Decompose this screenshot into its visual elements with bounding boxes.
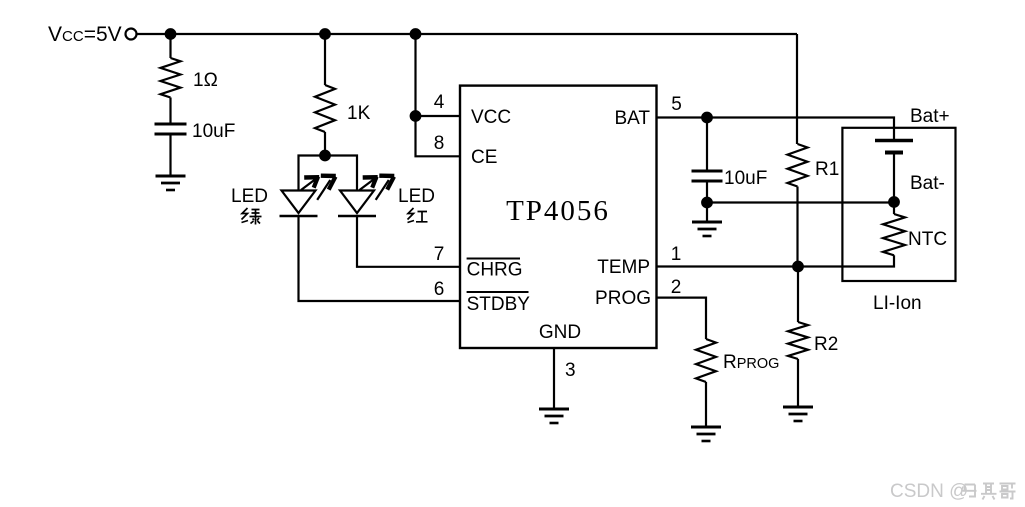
node: junction VCC / 1K (320, 29, 330, 39)
VCC input terminal (126, 29, 137, 40)
wire: 10uF to ground (169, 134, 171, 176)
svg-text:10uF: 10uF (724, 168, 767, 189)
LED red symbol (340, 191, 374, 214)
svg-text:BAT: BAT (614, 108, 650, 129)
wire: R2 to ground (797, 359, 799, 407)
svg-text:1K: 1K (347, 103, 371, 124)
capacitor 10uF input (155, 123, 187, 126)
svg-text:VCC: VCC (471, 107, 511, 128)
wire: green LED cathode to STDBY pin 6 (299, 216, 460, 301)
wire: VCC top rail (137, 33, 797, 35)
wire: cap to ground node (706, 181, 708, 222)
resistor 1K (315, 85, 335, 132)
svg-text:GND: GND (539, 322, 581, 343)
svg-text:Bat-: Bat- (910, 173, 945, 194)
svg-text:CHRG: CHRG (467, 260, 523, 281)
wire: rail to 1ohm (169, 34, 171, 58)
label green CJK (242, 208, 262, 225)
wire: red LED cathode to CHRG pin 7 (357, 216, 459, 267)
resistor NTC (883, 214, 905, 255)
svg-text:5: 5 (671, 94, 682, 115)
ground (R2) (783, 406, 813, 409)
battery cell Bat+ plate (875, 139, 913, 143)
wire: 1ohm to 10uF (169, 98, 171, 125)
resistor R1 (788, 144, 808, 187)
resistor R2 (788, 322, 808, 359)
svg-text:PROG: PROG (595, 288, 651, 309)
wire: Bat- net (707, 201, 894, 203)
resistor RPROG (696, 339, 716, 382)
wire: rail to R1 (796, 34, 798, 144)
wire: R1 to TEMP node (796, 187, 798, 267)
svg-text:R2: R2 (814, 334, 838, 355)
svg-text:4: 4 (434, 92, 445, 113)
wire: TEMP node to R2 (797, 267, 799, 323)
resistor 1ohm (161, 58, 181, 98)
ground (Rprog) (691, 426, 721, 429)
wire: 1K to LED anodes (324, 132, 326, 156)
svg-text:7: 7 (434, 244, 445, 265)
watermark CJK name (963, 483, 1016, 500)
label red CJK (408, 208, 428, 223)
svg-text:LI-Ion: LI-Ion (873, 293, 922, 314)
svg-text:3: 3 (565, 360, 576, 381)
wire: BAT node to output cap (706, 118, 708, 172)
LED green symbol (282, 191, 316, 214)
svg-text:8: 8 (434, 133, 445, 154)
svg-text:TP4056: TP4056 (506, 195, 610, 227)
wire: GND pin 3 (553, 348, 555, 409)
IC U1 TP4056 body (460, 86, 657, 348)
node: junction VCC / IC supply (411, 29, 421, 39)
svg-text:1: 1 (671, 244, 682, 265)
capacitor 10uF output (692, 170, 723, 173)
battery pack box LI-Ion (842, 128, 955, 281)
wire: PROG pin 2 to Rprog (657, 298, 707, 339)
wire: battery minus to NTC node (893, 153, 895, 215)
svg-text:CE: CE (471, 147, 497, 168)
wire: Rprog to ground (705, 382, 707, 427)
svg-text:VCC=5V: VCC=5V (48, 23, 122, 46)
wire: rail to 1K (324, 34, 326, 85)
wire: anode rail to both LEDs (299, 156, 358, 191)
ground (input filter) (156, 175, 186, 178)
battery cell Bat- plate (885, 151, 903, 155)
svg-text:TEMP: TEMP (597, 257, 650, 278)
ground (output cap) (692, 221, 722, 224)
node: LED anode junction (320, 151, 330, 161)
node: Bat- / NTC junction (889, 197, 899, 207)
svg-text:2: 2 (671, 277, 682, 298)
svg-text:Bat+: Bat+ (910, 106, 950, 127)
svg-text:10uF: 10uF (192, 121, 235, 142)
node: BAT / output cap junction (702, 113, 712, 123)
svg-text:6: 6 (434, 279, 445, 300)
svg-text:LED: LED (231, 186, 268, 207)
node: TEMP divider junction (793, 262, 803, 272)
wire: IC supply branch (pins 4 and 8) (416, 34, 460, 156)
wire: TEMP net (657, 255, 895, 266)
svg-text:NTC: NTC (908, 229, 947, 250)
svg-text:R1: R1 (815, 159, 839, 180)
node: junction VCC / 1ohm filter (166, 29, 176, 39)
ground (IC GND) (539, 408, 569, 411)
node: Bat- / ground junction (702, 198, 712, 208)
svg-text:CSDN @: CSDN @ (890, 481, 968, 502)
svg-text:STDBY: STDBY (467, 294, 531, 315)
svg-text:RPROG: RPROG (723, 352, 779, 373)
svg-text:LED: LED (398, 186, 435, 207)
wire: BAT net pin5 to battery (657, 118, 895, 141)
node: junction pin4/pin8 branch (411, 111, 421, 121)
svg-text:1Ω: 1Ω (193, 70, 218, 91)
